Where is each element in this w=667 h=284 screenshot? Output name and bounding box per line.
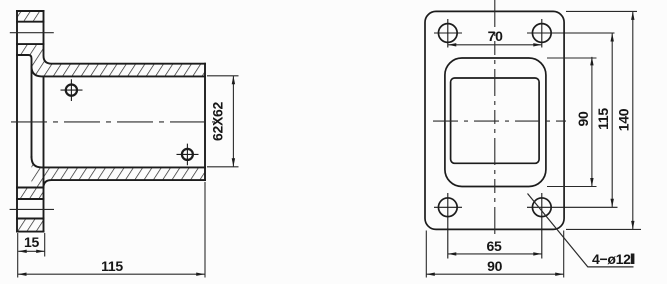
flange right edge upper + outer top fillet + tube outer top edge <box>44 11 206 64</box>
dimension 115 line <box>18 273 205 275</box>
leader text trailing mark <box>631 254 635 265</box>
tube axis centerline <box>11 121 215 123</box>
recess top edge + corner fillet + recess floor line <box>17 55 32 157</box>
flange plate outline <box>425 11 564 229</box>
flange left edge <box>16 11 18 232</box>
hole on tube top wall <box>61 79 83 101</box>
dimension 90 bottom line <box>426 273 563 275</box>
svg-text:90: 90 <box>575 111 591 126</box>
bolt hole bottom-left <box>434 193 462 259</box>
dimension 15 line <box>18 250 45 252</box>
bolt hole centerline (top lug) <box>10 32 54 34</box>
dimension 62X62 arrows <box>232 76 235 167</box>
dimension 90 right arrows <box>590 57 593 187</box>
dimension 140 arrows <box>631 11 634 229</box>
dimension 115 arrows <box>18 273 205 276</box>
svg-text:90: 90 <box>487 258 502 274</box>
dimension 65 arrows <box>448 252 542 255</box>
dimension 115 right line <box>611 33 613 207</box>
bolt hole bottom-right <box>527 193 618 259</box>
bolt hole top-left <box>434 19 462 48</box>
bolt hole top-right <box>527 19 615 48</box>
dimension 140 extension lines <box>566 11 641 229</box>
flange mid vertical (back face seen through opening) <box>43 76 45 187</box>
dimension 115 extension lines <box>18 182 205 278</box>
svg-text:65: 65 <box>487 238 502 254</box>
svg-text:15: 15 <box>24 234 39 250</box>
svg-text:62X62: 62X62 <box>209 101 225 140</box>
bolt hole gap bottom lines <box>17 199 44 219</box>
dimension 140 line <box>632 11 634 229</box>
dimension 90 right line <box>591 57 593 187</box>
dimension 70 arrows <box>448 43 542 46</box>
leader line 4-ø12 <box>528 194 634 267</box>
tube end edge <box>204 64 206 180</box>
tube inner top edge + fillet to recess floor <box>32 66 206 76</box>
tube inner bottom edge + fillet to recess floor <box>32 157 206 167</box>
recess bottom edge <box>17 187 44 189</box>
waveguide opening outline <box>451 78 539 163</box>
svg-text:115: 115 <box>595 108 611 130</box>
flange outline <box>17 11 205 232</box>
svg-text:140: 140 <box>615 108 631 131</box>
hatch region: tube bottom wall + flange lower band <box>17 157 205 199</box>
flange bottom edge <box>17 231 44 233</box>
dimension 15 arrows <box>18 250 45 253</box>
recess pocket outline <box>445 58 546 187</box>
dimension 15 extension lines <box>18 233 45 257</box>
bolt hole centerline (bottom lug) <box>10 208 54 210</box>
dimension 70 line <box>448 44 542 46</box>
svg-text:70: 70 <box>488 28 503 44</box>
horizontal centerline <box>433 120 566 122</box>
dimension 65 line <box>448 253 542 255</box>
vertical centerline <box>494 0 496 239</box>
hole on tube bottom wall <box>177 144 199 166</box>
bolt hole gap top lines <box>17 22 44 44</box>
svg-text:115: 115 <box>101 258 123 274</box>
hatch band: flange top lug <box>17 11 44 22</box>
dimension 90 bottom extension lines <box>426 231 563 278</box>
hatch region: flange upper band + tube top wall <box>17 44 205 76</box>
hatch band: flange bottom lug <box>17 219 44 232</box>
svg-text:4−ø12: 4−ø12 <box>592 251 631 267</box>
dimension 90 bottom arrows <box>426 273 563 276</box>
dimension 62X62 line <box>232 76 234 167</box>
dimension 115 right arrows <box>611 33 614 207</box>
flange top edge <box>17 10 44 12</box>
dimension 62X62 extension lines <box>207 76 239 167</box>
dimension 90 right extension lines <box>547 58 597 187</box>
tube outer bottom edge + outer bottom fillet + flange right edge lower <box>44 180 206 232</box>
